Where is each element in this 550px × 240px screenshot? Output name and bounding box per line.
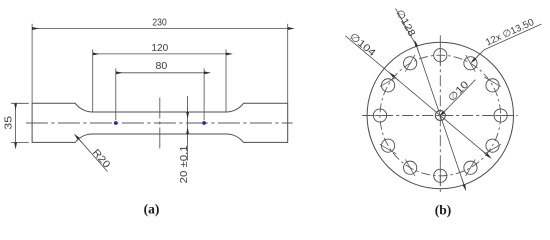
dimension 35 (15, 103, 17, 142)
center mark vertical (a) (159, 98, 161, 150)
svg-text:∅10: ∅10 (446, 79, 471, 104)
dimension 120 (93, 53, 226, 55)
svg-text:R20: R20 (90, 147, 112, 170)
centerline horizontal (a) (26, 122, 293, 124)
bolt hole 7 o'clock (404, 161, 417, 174)
bolt hole 4 o'clock (486, 139, 499, 152)
leader R20 (79, 139, 108, 172)
bolt hole 9 o'clock (373, 109, 386, 122)
arrow on bolt circle lower-right (482, 150, 487, 154)
svg-text:∅128: ∅128 (393, 8, 417, 39)
arrow at fillet (79, 139, 82, 143)
arrow at 1 o'clock hole (475, 54, 479, 58)
vertical centerline (b) (439, 35, 441, 192)
bolt hole 6 o'clock (434, 169, 447, 182)
svg-text:35: 35 (3, 116, 14, 130)
svg-text:(a): (a) (144, 202, 160, 217)
arrow on outer circle top (417, 46, 419, 52)
arrow to narrow bottom (187, 134, 189, 139)
svg-text:∅104: ∅104 (347, 31, 377, 59)
dimension 20 ±0.1 line (187, 96, 189, 161)
dimension 80 (116, 72, 204, 74)
arrow to narrow top (187, 108, 189, 113)
outer circle (367, 42, 513, 188)
svg-text:20 ±0.1: 20 ±0.1 (179, 145, 190, 183)
bolt hole 5 o'clock (464, 161, 477, 174)
extension lines 120 (93, 49, 226, 111)
gauge point right (blue) (202, 121, 206, 125)
svg-text:12x ∅13.50: 12x ∅13.50 (484, 17, 536, 49)
dimension line D104 (through center at 40deg) (345, 36, 486, 155)
center hole (435, 111, 445, 121)
bolt hole 1 o'clock (464, 57, 477, 70)
svg-text:120: 120 (151, 43, 168, 54)
extension lines 230 (32, 24, 288, 104)
specimen outline with R20 fillets (32, 103, 288, 142)
svg-text:230: 230 (152, 18, 167, 29)
bolt hole 12 o'clock (434, 49, 447, 62)
arrow on outer circle bottom (462, 179, 464, 185)
dimension 230 (32, 28, 288, 30)
bolt hole 3 o'clock (494, 109, 507, 122)
bolt hole 10 o'clock (381, 79, 394, 92)
bolt hole 8 o'clock (381, 139, 394, 152)
bolt hole 11 o'clock (404, 57, 417, 70)
svg-text:80: 80 (156, 61, 168, 72)
extension ticks 35 (11, 103, 29, 142)
bolt circle (380, 55, 501, 176)
horizontal centerline (b) (362, 115, 517, 117)
arrow on bolt circle upper-left (394, 77, 399, 81)
leader 12x D13.50 (475, 50, 484, 59)
gauge point left (blue) (114, 121, 118, 125)
dimension line D128 (steep, through center) (396, 9, 417, 47)
leader D10 (444, 80, 476, 112)
bolt hole 2 o'clock (486, 79, 499, 92)
radial tick marks of holes (370, 46, 510, 186)
extension lines 80 (116, 68, 204, 120)
svg-text:(b): (b) (435, 203, 452, 218)
arrow at center hole (444, 109, 448, 113)
